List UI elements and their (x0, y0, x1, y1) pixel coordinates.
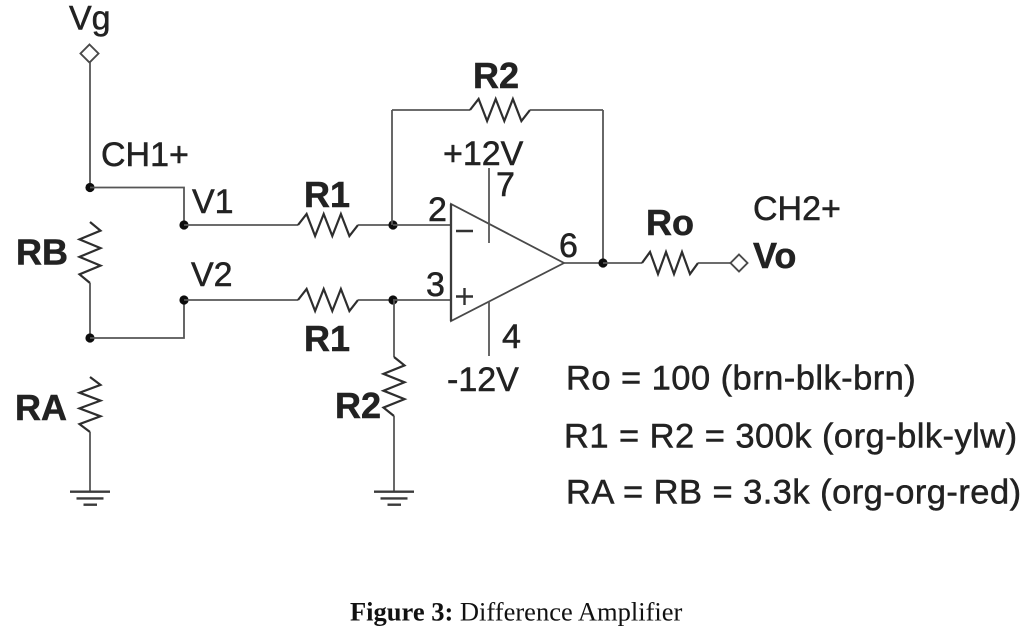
svg-text:Vo: Vo (753, 235, 796, 276)
svg-text:+12V: +12V (443, 135, 524, 173)
wire RA to ground (89, 432, 91, 491)
svg-text:R2: R2 (335, 385, 381, 426)
resistor R1 (non-inverting input) (298, 289, 358, 311)
svg-text:4: 4 (502, 318, 521, 356)
resistor R2 (shunt) (384, 357, 405, 416)
wire shunt R2 to ground (393, 416, 395, 491)
svg-text:CH1+: CH1+ (101, 136, 189, 174)
wire op-amp output to node (564, 262, 603, 264)
svg-text:Ro: Ro (646, 202, 694, 243)
svg-text:Ro = 100 (brn-blk-brn): Ro = 100 (brn-blk-brn) (566, 360, 916, 398)
junction non-inverting input node (388, 295, 397, 304)
wire V1 to R1 (184, 224, 298, 226)
wire V2 to R1 (non-inverting) (184, 299, 298, 301)
svg-text:6: 6 (559, 227, 578, 265)
junction RA/RB node (85, 333, 94, 342)
node Vg terminal diamond (81, 45, 99, 63)
svg-text:-12V: -12V (447, 361, 519, 399)
ground (left) (70, 492, 110, 505)
junction node V1 (179, 220, 188, 229)
pin 4 wire (488, 301, 490, 356)
svg-text:R1: R1 (304, 318, 350, 359)
wire feedback left vertical (391, 110, 393, 225)
wire output node to Ro (603, 262, 642, 264)
wire node to op-amp pin 3 (393, 299, 451, 301)
wire feedback top right (530, 109, 603, 111)
svg-text:V2: V2 (191, 256, 233, 294)
svg-text:3: 3 (426, 266, 445, 304)
resistor R2 (feedback) (470, 99, 530, 121)
svg-text:Figure 3: Difference Amplifier: Figure 3: Difference Amplifier (350, 597, 683, 627)
op-amp non-inverting plus sign (456, 288, 473, 305)
wire RB lower lead (89, 283, 91, 338)
wire node to op-amp pin 2 (393, 224, 451, 226)
junction CH1+ node (85, 183, 94, 192)
resistor RB (80, 222, 101, 283)
node Vo terminal diamond (731, 255, 748, 272)
ground (right) (374, 492, 414, 505)
svg-text:RB: RB (16, 232, 68, 273)
wire CH1+ node to V1 corner (90, 188, 184, 226)
wire Ro to Vo terminal (698, 262, 731, 264)
svg-text:V1: V1 (192, 183, 234, 221)
op-amp inverting minus sign (456, 230, 473, 232)
svg-text:2: 2 (428, 191, 447, 229)
resistor Ro (642, 252, 698, 274)
wire feedback top left (392, 109, 470, 111)
svg-text:R1 = R2 = 300k (org-blk-ylw): R1 = R2 = 300k (org-blk-ylw) (564, 418, 1018, 456)
svg-text:CH2+: CH2+ (753, 190, 841, 228)
wire non-inverting node down to shunt R2 (393, 300, 395, 357)
wire R1 to non-inverting node (358, 299, 393, 301)
junction node V2 (179, 295, 188, 304)
wire feedback right vertical to output node (602, 110, 604, 263)
op-amp U1 triangle (451, 204, 564, 321)
svg-text:R2: R2 (473, 55, 519, 96)
svg-text:RA: RA (15, 387, 67, 428)
junction output node (598, 258, 607, 267)
svg-text:R1: R1 (304, 174, 350, 215)
pin 7 wire (488, 168, 490, 243)
svg-text:Vg: Vg (69, 0, 111, 38)
svg-text:RA = RB = 3.3k (org-org-red): RA = RB = 3.3k (org-org-red) (566, 474, 1022, 512)
resistor R1 (inverting input) (298, 214, 358, 236)
junction inverting input node (388, 220, 397, 229)
wire RA/RB node to V2 node (90, 300, 184, 338)
resistor RA (80, 377, 101, 432)
wire R1 to inverting node (358, 224, 393, 226)
wire Vg to CH1+ node (89, 63, 91, 188)
